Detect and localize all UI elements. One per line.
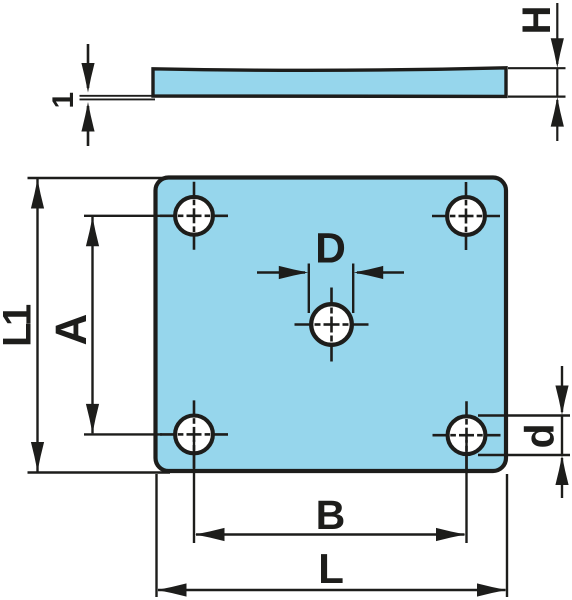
- dimension L1: [28, 178, 171, 473]
- dimension A: [84, 216, 162, 435]
- text H: [523, 8, 551, 32]
- text d: [524, 426, 554, 447]
- hole top-left: [160, 182, 228, 250]
- dimension D: [257, 264, 404, 314]
- text 1: [52, 93, 73, 107]
- text B: [318, 501, 343, 529]
- hole bottom-left: [160, 400, 228, 468]
- dimension B: [194, 440, 467, 543]
- text L: [321, 554, 343, 583]
- hole top-right: [432, 182, 500, 250]
- hole bottom-right: [433, 401, 501, 469]
- text A: [56, 315, 86, 345]
- dimension 1: [81, 44, 94, 146]
- dimension H: [508, 3, 566, 141]
- plate (top view): [156, 178, 507, 472]
- side view thin flange (1mm tongue): [80, 96, 156, 100]
- text D: [318, 233, 344, 262]
- hole center: [295, 288, 369, 362]
- text L1: [3, 305, 31, 344]
- side view plate body: [153, 68, 506, 97]
- dimension L: [157, 474, 508, 597]
- dimension d: [478, 366, 570, 498]
